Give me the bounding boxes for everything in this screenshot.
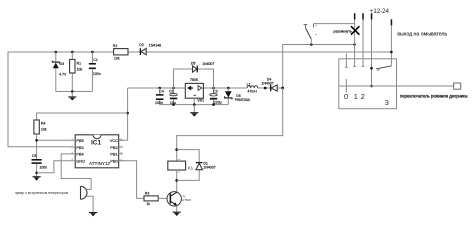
diode D4 1N4007: [261, 78, 277, 92]
node dot contact3 on output line: [370, 85, 373, 88]
svg-text:2: 2: [361, 92, 365, 101]
diode D1 flyback 1N4007: [196, 162, 216, 170]
svg-text:P6KE33A: P6KE33A: [235, 98, 251, 102]
svg-text:разомкнуть: разомкнуть: [333, 30, 352, 34]
capacitor C4: [155, 88, 164, 105]
relay coil K1: [168, 159, 194, 172]
svg-text:100n: 100n: [93, 72, 101, 76]
voltage regulator VR1 7805: [185, 78, 204, 104]
resistor R2: [113, 44, 128, 60]
ground regulator: [190, 105, 198, 117]
wire contact 0 stub: [345, 54, 348, 67]
ground left section: [68, 92, 76, 101]
node dot D3 top: [55, 51, 58, 54]
svg-text:L1: L1: [247, 82, 251, 86]
node dot C1 top: [91, 51, 94, 54]
svg-text:10k: 10k: [77, 68, 83, 72]
node dot R1 bottom: [71, 90, 74, 93]
ground C5: [33, 176, 41, 180]
svg-text:R1: R1: [77, 62, 82, 66]
wire ground rail under regulator: [160, 104, 229, 106]
svg-text:PB1: PB1: [110, 152, 118, 157]
svg-text:зумер с встроенным генератором: зумер с встроенным генератором: [15, 191, 69, 195]
svg-text:PB4: PB4: [76, 152, 84, 157]
zener diode D3: [52, 61, 67, 77]
resistor R1: [70, 59, 83, 73]
wire contact1 vertical: [354, 20, 356, 67]
resistor R4: [34, 120, 47, 134]
wire PB4 to buzzer: [61, 154, 91, 190]
wire GND pin to C5: [37, 161, 71, 173]
transil D6 P6KE33A: [225, 88, 251, 105]
zener diode D3 stems: [55, 52, 57, 92]
svg-text:220µ: 220µ: [214, 101, 222, 105]
wire contact2 vertical: [362, 20, 364, 67]
wire PB0 to R3: [119, 161, 144, 199]
svg-text:VCC: VCC: [110, 138, 119, 143]
inductor L1: [247, 82, 258, 93]
svg-text:PB2: PB2: [110, 145, 118, 150]
svg-text:C4: C4: [159, 90, 164, 94]
contact 2 tick: [362, 65, 365, 67]
connector arrow 1: [354, 13, 356, 19]
svg-text:IC1: IC1: [91, 139, 102, 146]
svg-text:выход на омыватель: выход на омыватель: [397, 32, 447, 38]
svg-text:PB0: PB0: [110, 158, 118, 163]
svg-text:1k: 1k: [146, 202, 150, 206]
wire S1 top rail: [314, 23, 355, 25]
bypass diode D5 loop wires: [174, 69, 214, 88]
flyback diode loop wires: [177, 150, 200, 181]
wire R2 to D2: [128, 51, 140, 53]
wire line A from D4 node up and right to contact 1: [283, 45, 355, 89]
capacitor C2 electrolytic: [169, 88, 177, 105]
node dots ground rail: [172, 103, 175, 106]
switch S1 wiper stalk lever: [304, 24, 317, 45]
resistor R3: [144, 192, 158, 207]
capacitor C1 stems: [91, 52, 93, 92]
terminal square: [454, 83, 461, 89]
svg-text:C5: C5: [32, 154, 37, 158]
wire contact 0 lower stub: [345, 79, 347, 93]
wire input rail 7805 section: [128, 87, 283, 89]
svg-text:GND: GND: [76, 158, 85, 163]
svg-text:ATTINY12: ATTINY12: [89, 161, 111, 166]
capacitor C3 electrolytic: [210, 88, 222, 105]
wire coil bottom: [176, 170, 178, 192]
svg-text:PB3: PB3: [76, 145, 84, 150]
node dot S1 bottom: [310, 43, 313, 46]
transistor T1: [167, 192, 191, 206]
svg-text:K1: K1: [188, 165, 194, 170]
switch position labels 0 1 2 3: [344, 92, 389, 107]
wire contact3 vertical +12-24 feed: [371, 20, 373, 87]
svg-text:D3: D3: [60, 62, 65, 66]
svg-text:1N4148: 1N4148: [149, 43, 161, 47]
switch box переключатель: [339, 59, 397, 109]
svg-text:VR1: VR1: [197, 99, 204, 103]
ground buzzer: [89, 212, 97, 216]
diode D2 1N4148: [139, 43, 161, 55]
diode D5 1N4007: [191, 62, 215, 73]
node dot washer line B junction: [390, 51, 393, 54]
node dot C5 gnd: [35, 172, 38, 175]
connector arrow 2: [362, 13, 364, 19]
wire output middle line to terminal square: [339, 85, 454, 87]
node dot R1 top: [71, 51, 74, 54]
svg-text:1N4007: 1N4007: [203, 166, 215, 170]
ground transistor: [173, 212, 181, 216]
connector arrow 4 washer output: [391, 19, 448, 37]
svg-text:D2: D2: [139, 43, 144, 47]
svg-text:R2: R2: [113, 44, 118, 48]
node dot R4 PB5: [35, 139, 38, 142]
svg-text:R3: R3: [145, 192, 150, 196]
wire R4 bottom to PB5 and C5: [37, 134, 71, 159]
IC1 ATTINY12: [71, 135, 123, 168]
contact 1 tick: [353, 65, 356, 67]
wire D2 to switch common, line B: [146, 51, 391, 53]
svg-text:D5: D5: [191, 62, 196, 66]
svg-text:100n: 100n: [39, 166, 47, 170]
svg-text:4.7V: 4.7V: [59, 73, 67, 77]
connector arrow 3 +12-24: [370, 8, 390, 20]
node dot R4 tap: [126, 112, 129, 115]
svg-text:R4: R4: [41, 121, 46, 125]
svg-text:47mH: 47mH: [247, 90, 257, 94]
node dot relay coil top: [175, 148, 178, 151]
svg-text:0: 0: [344, 92, 348, 101]
wire washer common vertical: [390, 25, 392, 66]
X break mark: [333, 26, 359, 35]
svg-text:+12-24: +12-24: [370, 8, 390, 15]
svg-text:10k: 10k: [41, 127, 47, 131]
wire VCC drop to IC: [119, 88, 128, 140]
svg-text:10k: 10k: [114, 57, 120, 61]
svg-text:переключатель режимов дворника: переключатель режимов дворника: [400, 93, 468, 98]
node dot line A end: [353, 43, 356, 46]
svg-text:C1: C1: [93, 58, 98, 62]
wire top rail from left vertical down to PB3: [8, 52, 114, 147]
svg-text:PB5: PB5: [76, 138, 84, 143]
switch lever in box: [376, 66, 391, 71]
wire emitter to ground: [176, 206, 178, 212]
wire buzzer to ground: [87, 196, 93, 212]
node dot contact3 upper: [370, 67, 373, 70]
svg-text:C2: C2: [169, 89, 174, 93]
wire bottom mini rail D3 R1 C1: [56, 91, 93, 93]
capacitor C1: [89, 58, 101, 76]
svg-text:KT815: KT815: [182, 198, 191, 202]
node dots input rail: [158, 87, 161, 90]
buzzer BZ1: [15, 186, 87, 199]
wire R3 to base: [158, 197, 169, 199]
resistor R1 stems: [71, 52, 73, 92]
svg-text:C3: C3: [213, 90, 218, 94]
node dot coil bottom: [175, 179, 178, 182]
svg-text:1N4007: 1N4007: [261, 81, 273, 85]
wire relay power from D4 node: [177, 88, 283, 161]
svg-text:1N4007: 1N4007: [202, 62, 214, 66]
svg-text:3: 3: [385, 98, 389, 107]
svg-text:7805: 7805: [190, 78, 198, 82]
svg-text:1: 1: [354, 92, 358, 101]
wire R4 feed line: [37, 113, 128, 120]
capacitor C5: [32, 154, 48, 176]
